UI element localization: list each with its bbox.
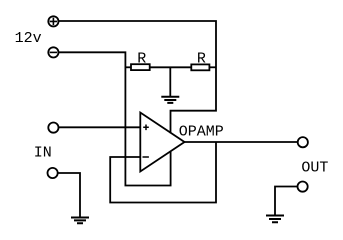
wire op-amp output to OUT — [185, 141, 298, 143]
minus sign in P- — [50, 51, 57, 53]
wire divider midpoint to ground — [169, 67, 171, 97]
wire -12V rail to resistor R1 — [125, 66, 131, 68]
minus input stub — [143, 156, 149, 158]
plus input stub — [143, 125, 149, 131]
IN terminal — [48, 123, 58, 133]
svg-text:R: R — [137, 51, 146, 68]
svg-text:12v: 12v — [15, 30, 42, 47]
resistor R1 — [131, 64, 150, 70]
IN ground terminal — [48, 168, 58, 178]
resistor R2 — [191, 64, 209, 70]
wire R2 to +12V rail — [209, 66, 216, 68]
wire +12V rail: P+ right, down, step left to op-amp V+ pin — [58, 21, 216, 133]
power terminal P+ — [48, 16, 58, 26]
wire -12V rail: P- right, down, right to op-amp V- pin — [58, 52, 171, 185]
svg-text:OUT: OUT — [301, 160, 328, 177]
power terminal P- — [48, 47, 58, 57]
svg-text:IN: IN — [34, 145, 52, 162]
ground (IN) — [71, 218, 89, 224]
wire feedback: - input left, down, right, up to output — [110, 142, 216, 203]
wire IN ground terminal to ground — [58, 173, 80, 218]
op-amp U1 — [140, 113, 184, 172]
wire R1 to R2 — [150, 66, 192, 68]
wire IN to op-amp + input — [58, 126, 140, 128]
plus sign in P+ — [50, 18, 57, 25]
ground (divider midpoint) — [161, 97, 179, 103]
svg-text:OPAMP: OPAMP — [179, 124, 224, 141]
OUT ground terminal — [298, 182, 308, 192]
OUT terminal — [298, 137, 308, 147]
svg-text:R: R — [197, 51, 206, 68]
wire OUT ground terminal to ground — [275, 187, 297, 216]
ground (OUT) — [266, 216, 284, 223]
